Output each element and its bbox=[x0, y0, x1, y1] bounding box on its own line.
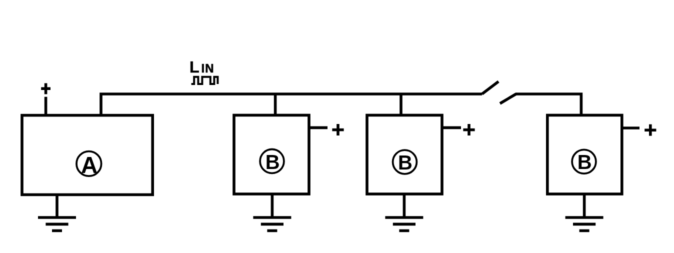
svg-text:B: B bbox=[398, 152, 412, 174]
svg-text:B: B bbox=[265, 152, 279, 174]
svg-text:IN: IN bbox=[201, 62, 214, 76]
svg-text:L: L bbox=[190, 60, 200, 77]
svg-text:B: B bbox=[577, 152, 591, 174]
svg-text:A: A bbox=[81, 152, 98, 178]
